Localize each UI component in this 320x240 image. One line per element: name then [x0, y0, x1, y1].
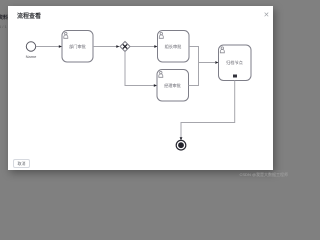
- svg-text:Name: Name: [26, 54, 37, 59]
- svg-text:部门审批: 部门审批: [69, 43, 87, 50]
- svg-text:经理审批: 经理审批: [164, 82, 182, 89]
- svg-text:归档节点: 归档节点: [226, 59, 243, 66]
- svg-text:组长审批: 组长审批: [165, 43, 183, 50]
